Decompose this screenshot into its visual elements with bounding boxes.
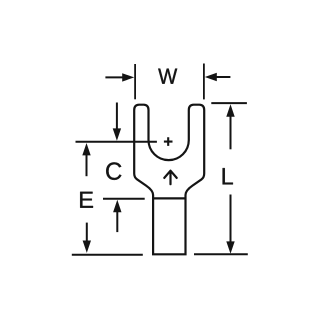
C dimension: bottom arrow (up) [113, 200, 121, 212]
L dimension: top reference line [211, 102, 247, 104]
L dimension: bottom reference line [194, 253, 248, 255]
plus mark (slot center) [164, 137, 173, 146]
C dimension: top arrow (down) [116, 103, 118, 131]
W dimension: right arrow [216, 76, 230, 78]
E dimension: bottom arrow (down) [86, 223, 88, 242]
E dimension: bottom reference line [72, 254, 143, 256]
C dimension: bottom reference line [103, 198, 145, 200]
up arrow inside barrel [164, 171, 176, 185]
L dimension: bottom arrow (down) [230, 195, 232, 244]
L dimension: top arrow (up) [226, 104, 234, 116]
E dimension: top arrow (up) [82, 143, 90, 155]
W dimension: right extension line [203, 64, 205, 100]
W dimension: left extension line [134, 64, 136, 99]
label L [223, 168, 233, 184]
label W [158, 69, 177, 84]
label C [106, 162, 121, 180]
W dimension: left arrow [105, 76, 123, 78]
C dimension: top reference line [76, 141, 157, 143]
crimp line on barrel [153, 197, 185, 199]
fork terminal outline [134, 105, 204, 255]
label E [80, 192, 93, 208]
